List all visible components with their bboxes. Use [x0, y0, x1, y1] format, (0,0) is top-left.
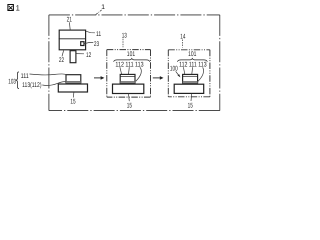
- svg-text:100: 100: [170, 65, 178, 72]
- svg-text:12: 12: [86, 52, 91, 59]
- svg-text:15: 15: [188, 102, 193, 109]
- svg-text:13: 13: [122, 33, 127, 40]
- svg-text:11: 11: [96, 31, 101, 38]
- svg-text:14: 14: [180, 33, 185, 40]
- svg-text:103: 103: [8, 78, 16, 85]
- svg-text:101: 101: [127, 51, 135, 58]
- svg-text:101: 101: [188, 51, 196, 58]
- svg-text:22: 22: [59, 57, 64, 64]
- svg-text:113(112): 113(112): [22, 82, 41, 89]
- svg-text:1: 1: [101, 4, 105, 11]
- svg-text:1: 1: [16, 3, 20, 12]
- svg-text:111: 111: [21, 73, 29, 80]
- svg-text:15: 15: [127, 102, 132, 109]
- svg-text:15: 15: [70, 99, 75, 106]
- svg-text:23: 23: [94, 41, 99, 48]
